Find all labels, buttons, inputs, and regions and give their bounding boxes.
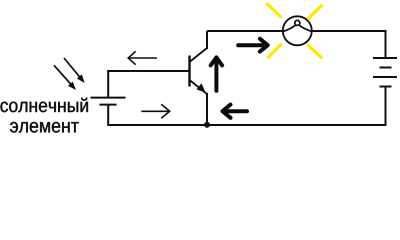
- wire: battery bottom to bottom rail: [385, 87, 387, 127]
- lamp L1: [283, 16, 312, 45]
- wire: bottom rail: [107, 124, 386, 126]
- lamp ray lower-left: [269, 45, 281, 58]
- thin current arrow right (bottom): [141, 104, 169, 118]
- wire: top rail right of lamp: [312, 30, 387, 32]
- bold current arrow right (to lamp): [238, 39, 268, 52]
- light ray arrow 1 (upper): [64, 58, 85, 83]
- solar cell: short plate: [100, 104, 117, 106]
- lamp ray lower-right: [309, 46, 322, 58]
- solar cell: long plate: [91, 97, 126, 99]
- battery plate 2 short: [380, 67, 392, 69]
- label "солнечный элемент": [0, 98, 87, 133]
- bold current arrow up (beside transistor): [211, 57, 222, 90]
- battery GB1: plate 1 long: [373, 57, 397, 59]
- transistor collector lead: [190, 48, 208, 62]
- wire: right rail down to battery: [385, 30, 387, 58]
- wire: top-left rail to transistor base: [107, 70, 189, 72]
- bold current arrow left (bottom rail): [223, 105, 248, 118]
- transistor base bar: [188, 56, 190, 87]
- battery plate 4 short: [380, 86, 392, 88]
- transistor emitter lead with arrowhead: [190, 80, 208, 94]
- junction dot: [204, 122, 210, 128]
- battery plate 3 long: [373, 76, 397, 78]
- wire: cell top to top-left rail: [107, 71, 109, 98]
- thin current arrow left (top): [128, 51, 157, 64]
- wire: top rail left of lamp: [207, 30, 283, 32]
- wire: emitter down: [206, 93, 208, 125]
- light ray arrow 2 (lower): [54, 65, 76, 90]
- lamp ray upper-right: [309, 6, 322, 18]
- wire: collector up: [206, 31, 208, 49]
- wire: cell bottom down: [107, 105, 109, 126]
- lamp ray upper-left: [267, 4, 280, 17]
